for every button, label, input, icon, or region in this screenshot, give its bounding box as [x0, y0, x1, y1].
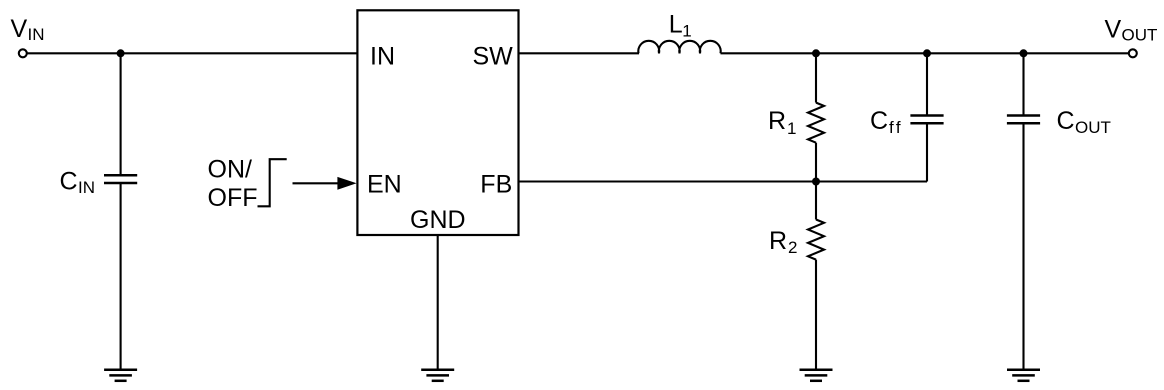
svg-text:L: L — [669, 10, 683, 38]
IC U1 regulator body — [357, 10, 518, 235]
svg-text:R: R — [768, 107, 786, 135]
wire R1 to FB node — [815, 143, 817, 182]
terminal VIN — [19, 49, 27, 57]
junction COUT top — [1020, 49, 1028, 57]
terminal VOUT — [1129, 49, 1137, 57]
svg-text:OUT: OUT — [1075, 118, 1111, 137]
wire rail down to Cff — [926, 53, 928, 115]
junction R1 top — [812, 49, 820, 57]
svg-text:1: 1 — [682, 22, 691, 41]
wire GND pin to ground — [437, 235, 439, 370]
svg-text:OUT: OUT — [1122, 25, 1158, 44]
svg-text:1: 1 — [787, 119, 796, 138]
wire CIN down to ground — [120, 183, 122, 370]
svg-text:OFF: OFF — [208, 184, 258, 212]
capacitor COUT — [1007, 107, 1111, 137]
capacitor CIN — [60, 168, 138, 198]
wire rail down to R1 — [815, 53, 817, 102]
wire input node down to CIN — [120, 53, 122, 175]
svg-text:GND: GND — [410, 206, 466, 234]
wire FB pin to Cff bottom — [519, 180, 928, 182]
svg-text:V: V — [11, 15, 28, 43]
svg-text:FB: FB — [480, 170, 512, 198]
wire Cff bottom to FB line — [926, 123, 928, 181]
arrowhead into EN pin — [337, 177, 356, 190]
svg-text:ff: ff — [889, 118, 903, 137]
svg-text:2: 2 — [788, 238, 797, 257]
node VOUT label — [1105, 15, 1158, 44]
wire COUT down to ground — [1022, 123, 1024, 370]
wire R2 to ground — [815, 260, 817, 370]
svg-text:C: C — [60, 168, 78, 196]
ground at COUT — [1007, 370, 1040, 381]
svg-text:V: V — [1105, 15, 1122, 43]
capacitor Cff — [870, 107, 944, 137]
wire EN arrow line — [293, 182, 341, 184]
svg-text:IN: IN — [78, 178, 95, 197]
svg-text:C: C — [1057, 107, 1075, 135]
node ON/OFF label — [208, 155, 258, 212]
resistor R1 — [768, 103, 824, 143]
inductor L1 — [638, 10, 720, 53]
wire VIN to IN pin — [27, 52, 357, 54]
svg-text:R: R — [769, 227, 787, 255]
svg-text:SW: SW — [473, 42, 514, 70]
wire inductor to VOUT — [721, 52, 1129, 54]
svg-text:ON/: ON/ — [208, 155, 253, 183]
junction Cff top — [923, 49, 931, 57]
wire SW pin to inductor — [519, 52, 640, 54]
resistor R2 — [769, 220, 824, 260]
ground at R2 — [800, 370, 833, 381]
wire rail down to COUT — [1022, 53, 1024, 115]
node VIN label — [11, 15, 45, 44]
ground at GND pin — [421, 370, 454, 381]
ground at CIN — [104, 370, 137, 381]
junction FB node — [812, 178, 820, 186]
wire R2 FB node down — [815, 182, 817, 220]
junction input node — [117, 49, 125, 57]
svg-text:EN: EN — [367, 170, 402, 198]
svg-text:C: C — [870, 107, 888, 135]
svg-text:IN: IN — [28, 25, 45, 44]
step waveform symbol — [258, 159, 287, 206]
svg-text:IN: IN — [370, 42, 395, 70]
